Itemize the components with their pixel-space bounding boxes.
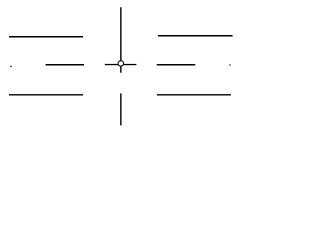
wire top vertical into node <box>120 7 122 61</box>
node dot far-left net stub <box>10 66 11 67</box>
node junction circle <box>118 61 124 66</box>
wire bottom-right horizontal <box>157 94 231 96</box>
wire middle-left horizontal <box>46 64 84 66</box>
wire left stub into node <box>105 64 119 66</box>
node dash far-right net stub <box>229 65 231 66</box>
wire middle-right horizontal <box>157 64 196 66</box>
wire top-right horizontal <box>158 35 233 37</box>
wire right stub from node <box>123 64 136 66</box>
wire bottom-left horizontal <box>9 94 83 96</box>
wire lower vertical segment <box>120 93 122 125</box>
wire bottom stub from node <box>120 66 122 73</box>
wire top-left horizontal <box>9 36 83 38</box>
